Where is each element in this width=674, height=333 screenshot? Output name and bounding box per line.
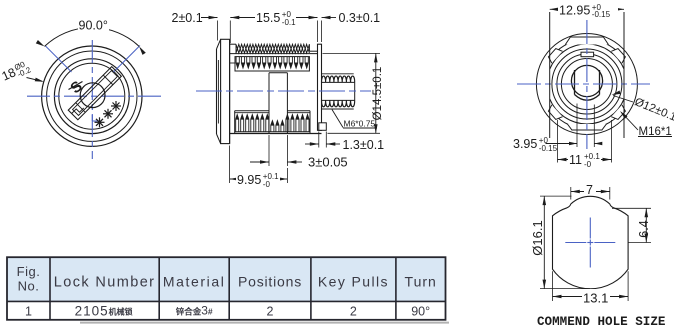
- rear view of lock: [513, 2, 674, 169]
- rear oblong bottom arc: [575, 95, 600, 101]
- section view centerline: [196, 90, 371, 92]
- dimension 11 rear: [557, 120, 559, 163]
- left connector line upper: [230, 62, 235, 64]
- position marking asterisks: [111, 105, 121, 107]
- rear smooth circle: [552, 49, 622, 119]
- dimension 12.95 rear width: [549, 12, 551, 138]
- flange bevel top: [217, 39, 221, 49]
- svg-text:2105: 2105: [75, 304, 109, 319]
- svg-text:13.1: 13.1: [583, 291, 608, 306]
- front view 45deg centerline left: [45, 46, 72, 73]
- rear outer circle: [536, 34, 637, 135]
- castellation bottom tab: [567, 124, 606, 130]
- label M16x1 with leader: [622, 113, 639, 131]
- castellation top tab: [565, 37, 608, 45]
- front view face ring outer: [54, 59, 129, 134]
- rear center circle: [571, 65, 602, 96]
- dimension 2 +-0.1 flange thickness: [217, 21, 219, 41]
- threaded stud M6: [322, 81, 355, 83]
- table header background: [7, 257, 446, 301]
- front view of lock face: [0, 18, 161, 159]
- back plate: [318, 44, 322, 130]
- svg-text:Positions: Positions: [238, 274, 302, 290]
- dimension dia 14.5 +-0.1 vertical: [323, 52, 381, 54]
- svg-text:6.4: 6.4: [637, 220, 651, 237]
- front view face ring inner: [59, 63, 125, 129]
- svg-text:11: 11: [569, 153, 582, 167]
- hole crosshair: [565, 242, 586, 244]
- dimension dia 16.1: [540, 195, 572, 197]
- dimension 7 hole notch width: [570, 187, 572, 200]
- flange bevel bottom: [217, 134, 221, 144]
- dimension 15.5 body length: [230, 17, 317, 19]
- dimension 3 +-0.05 cam width: [268, 135, 270, 166]
- svg-text:Key Pulls: Key Pulls: [318, 274, 389, 290]
- svg-text:-0.15: -0.15: [539, 144, 558, 153]
- leader arrow for dia 18: [27, 78, 43, 82]
- section view of lock body: [172, 9, 385, 189]
- front view 45deg centerline right: [114, 46, 141, 73]
- svg-text:M16*1: M16*1: [639, 126, 672, 138]
- dimension label diameter 18 with tolerance: [0, 58, 33, 85]
- label M6x0.75 with leader: [332, 110, 343, 128]
- castellation corner bumps: [611, 47, 627, 63]
- svg-text:2: 2: [350, 305, 357, 319]
- dimension 1.3 +-0.1 step: [318, 132, 320, 148]
- svg-text:0.3±0.1: 0.3±0.1: [339, 11, 381, 25]
- svg-text:12.95: 12.95: [559, 4, 590, 18]
- svg-text:-0.15: -0.15: [592, 10, 611, 19]
- svg-text:7: 7: [586, 183, 593, 197]
- svg-text:90°: 90°: [411, 305, 430, 319]
- upper tumbler comb band: [235, 57, 309, 71]
- front view centerline vertical: [91, 40, 93, 159]
- table row divider: [7, 300, 446, 302]
- dimension 9.95 cam position: [229, 146, 231, 184]
- svg-text:-0: -0: [263, 180, 271, 189]
- svg-text:2: 2: [267, 305, 274, 319]
- front view centerline horizontal: [27, 95, 161, 97]
- table drop shadow: [80, 322, 449, 324]
- top thread zigzag band: [236, 44, 309, 53]
- rear centerline horizontal: [517, 83, 650, 85]
- front view bezel inner circle: [47, 51, 137, 141]
- svg-text:9.95: 9.95: [237, 173, 261, 187]
- castellated ring outer with side flats: [550, 39, 624, 59]
- svg-text:Ø14.5±0.1: Ø14.5±0.1: [372, 67, 384, 121]
- dimension text 90.0deg: [78, 18, 109, 31]
- body bottom line: [230, 133, 322, 135]
- hole outline: [553, 196, 629, 288]
- svg-text:M6*0.75: M6*0.75: [344, 119, 376, 129]
- svg-text:3±0.05: 3±0.05: [308, 155, 348, 170]
- svg-text:Fig.: Fig.: [17, 264, 41, 279]
- comb band base line: [235, 131, 310, 133]
- svg-text:Ø12±0.1: Ø12±0.1: [633, 96, 674, 124]
- keyway slot outer outline: [68, 67, 121, 120]
- svg-text:Turn: Turn: [405, 274, 437, 290]
- svg-text:机械锁: 机械锁: [109, 307, 133, 317]
- dimension 90.0 degree arc: [45, 28, 140, 47]
- table column dividers: [49, 257, 51, 320]
- svg-text:1.3±0.1: 1.3±0.1: [343, 138, 385, 152]
- recommended mounting hole view: [530, 183, 666, 329]
- flange head plate: [221, 39, 230, 143]
- rear ring r25: [561, 59, 612, 110]
- key plug circle: [80, 83, 105, 108]
- castellated ring inner with side flats: [550, 44, 624, 69]
- svg-text:90.0°: 90.0°: [79, 19, 108, 33]
- right shoulder step: [308, 44, 310, 51]
- svg-text:Lock Number: Lock Number: [54, 275, 156, 291]
- svg-text:2±0.1: 2±0.1: [172, 11, 203, 25]
- dimension 13.1 hole width: [552, 271, 554, 301]
- table outer border: [7, 257, 446, 320]
- label dia 12 with leader: [613, 96, 633, 103]
- rear top small tab slot: [581, 52, 594, 57]
- rear centerline vertical: [586, 20, 588, 149]
- thread root line: [230, 53, 318, 55]
- flange face line: [216, 49, 218, 134]
- svg-text:COMMEND HOLE SIZE: COMMEND HOLE SIZE: [537, 315, 666, 329]
- rear ring r30: [557, 54, 617, 114]
- svg-text:-0: -0: [584, 160, 592, 169]
- svg-text:-0.1: -0.1: [282, 18, 296, 27]
- rear center oblong flats: [574, 70, 576, 95]
- svg-text:Ø16.1: Ø16.1: [530, 220, 545, 255]
- svg-text:1: 1: [25, 305, 32, 319]
- back plate bottom step: [319, 123, 327, 131]
- svg-text:No.: No.: [18, 279, 40, 294]
- front view outer bezel circle: [42, 46, 142, 146]
- svg-text:3.95: 3.95: [513, 137, 537, 151]
- svg-text:15.5: 15.5: [256, 11, 280, 25]
- svg-text:Material: Material: [163, 274, 226, 290]
- svg-text:锌合金3#: 锌合金3#: [176, 304, 213, 318]
- body outline top left corner: [230, 43, 236, 45]
- front view small blue mark near key: [91, 115, 93, 121]
- lower tumbler comb band: [235, 110, 269, 112]
- specification table: [7, 257, 449, 322]
- body top right corner to plate: [317, 44, 319, 53]
- dimension 6.4 notch depth: [612, 207, 651, 209]
- dimension 3.95 rear: [576, 104, 578, 148]
- dimension 0.3 +-0.1 plate: [317, 21, 319, 43]
- cam shaft: [269, 72, 287, 74]
